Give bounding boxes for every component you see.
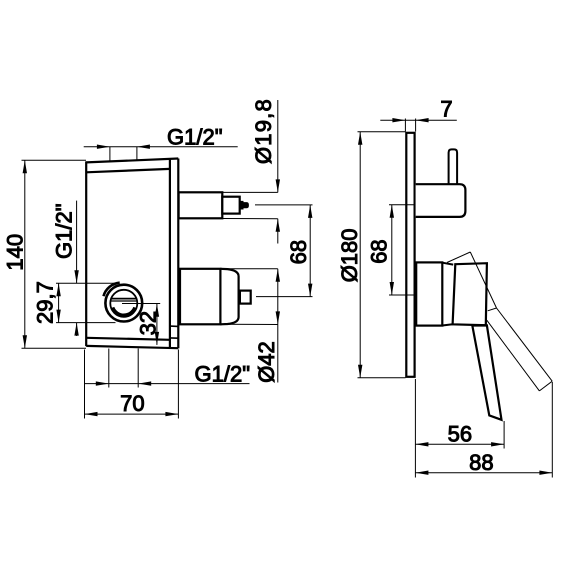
dimension G1/2" (top) [84, 145, 238, 162]
svg-text:Ø180: Ø180 [337, 228, 362, 282]
dimension Ø42 [276, 269, 280, 383]
svg-text:32: 32 [135, 311, 160, 335]
extension line phantom tip [551, 382, 553, 478]
wall plate (side view) [406, 133, 414, 377]
mixer cartridge housing [416, 262, 442, 325]
extension line plate edge down [414, 379, 416, 478]
side port back edge arc [104, 283, 120, 297]
upper port G1/2 (top right) [179, 192, 240, 218]
dimension Ø19,8 [276, 100, 280, 244]
dimension 68 (side view) [389, 205, 414, 295]
svg-text:7: 7 [440, 97, 452, 122]
dimension 68 (left view) [308, 205, 312, 297]
diverter stem [449, 149, 458, 184]
side port centre line to 32 dimension [122, 303, 160, 305]
body side-face step line [170, 325, 178, 327]
dimension 7 (plate thickness) [380, 118, 457, 132]
dimension 88 [415, 471, 552, 475]
body side-face bottom band line [170, 337, 178, 339]
dimension G1/2" (left, side port) [74, 201, 78, 336]
cartridge adapter ring [442, 263, 453, 326]
svg-text:68: 68 [286, 240, 311, 264]
side port inner ring [110, 290, 137, 317]
lever arm [472, 325, 501, 419]
dimension G1/2" (bottom) [85, 349, 250, 388]
lower port tangent extension lines [220, 268, 277, 270]
valve body front face [86, 159, 178, 349]
upper port centre line [255, 204, 313, 206]
dimension 32 [155, 304, 159, 345]
svg-text:68: 68 [366, 239, 391, 263]
upper port threaded nub [240, 201, 249, 210]
svg-text:G1/2": G1/2" [167, 124, 223, 149]
svg-text:56: 56 [448, 422, 472, 447]
svg-text:G1/2": G1/2" [52, 203, 77, 259]
extension line lever tip [503, 421, 505, 449]
svg-text:Ø19,8: Ø19,8 [251, 98, 276, 164]
dimension 29,7 [56, 283, 116, 322]
diverter knob housing [416, 184, 466, 217]
svg-text:70: 70 [120, 391, 144, 416]
dimension Ø180 [358, 132, 406, 378]
dimension 70 [85, 350, 179, 419]
side port outer ring [105, 285, 142, 322]
dimension 140 (left) [22, 160, 87, 348]
phantom lever raised position [447, 252, 552, 391]
side port screw slot lines [111, 298, 136, 300]
lever hub [453, 263, 487, 325]
svg-text:140: 140 [3, 234, 28, 271]
lower port centre line [256, 296, 313, 298]
side port bottom thick arc [113, 307, 135, 315]
lower port G1/2 with Ø42 flange [180, 269, 251, 325]
svg-text:Ø42: Ø42 [254, 341, 279, 383]
svg-text:88: 88 [469, 450, 493, 475]
svg-text:G1/2": G1/2" [195, 362, 251, 387]
svg-text:29,7: 29,7 [33, 281, 58, 324]
dimension 56 [415, 442, 504, 446]
upper port tangent extension lines [222, 191, 277, 193]
